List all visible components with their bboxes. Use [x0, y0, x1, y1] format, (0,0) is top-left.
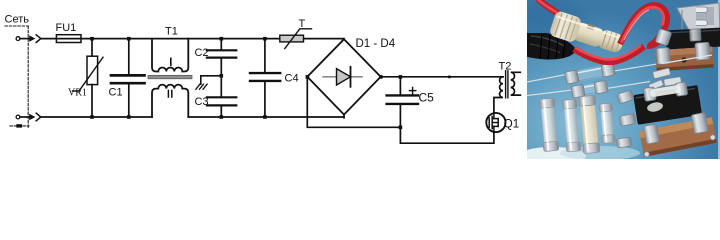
node: C1 top junction [127, 37, 131, 41]
photo background [527, 0, 720, 159]
wire: C1 top lead [128, 39, 130, 75]
wire: C1 bottom lead [128, 84, 130, 117]
input terminal L (top) [16, 37, 20, 41]
standing fuse s3 (ceramic) [579, 95, 600, 153]
thermistor T diagonal stroke [285, 29, 312, 49]
varistor VR1 diagonal stroke [73, 57, 104, 91]
loose metal caps [617, 90, 636, 148]
shadow under black boot [490, 0, 600, 60]
wire: C5 top lead [399, 77, 401, 94]
standing fuse s2 [562, 99, 580, 152]
wire: bridge minus drop and under-bridge return [307, 77, 400, 128]
node: C5 minus junction [399, 126, 403, 130]
capacitor C2 top plate [207, 49, 236, 51]
capacitor C3 bottom plate [207, 104, 236, 106]
node: C5 plus junction [399, 75, 403, 79]
bridge diode triangle [337, 69, 351, 85]
wire: DC plus line [381, 76, 503, 78]
wire: bridge bottom stub [343, 115, 345, 118]
transformer T2 core [505, 71, 507, 98]
svg-text:Q1: Q1 [504, 119, 519, 131]
light streak bottom-left [518, 147, 586, 165]
wire: bottom bus middle [188, 116, 344, 118]
red cable sag from boot to loop [574, 47, 644, 62]
thermistor T body [280, 35, 304, 42]
svg-text:C1: C1 [109, 87, 123, 99]
node: C1 bottom junction [127, 115, 131, 119]
arrow head (plug) bottom [29, 114, 35, 120]
arrow head (plug) top [29, 35, 35, 41]
transistor Q1 circle [486, 113, 505, 132]
label I (winding I numeral) [170, 58, 172, 65]
metal bracket top-right [677, 3, 720, 34]
chevron (socket) bottom [36, 113, 41, 121]
black square marker on dash-dot stub [16, 124, 22, 127]
node: VR1 top junction [90, 37, 94, 41]
wire: VR1 bottom lead [91, 85, 93, 117]
bridge rectifier D1-D4 diamond [307, 39, 380, 114]
wire: terminal to arrow [20, 38, 30, 40]
axial fuse A1 (transparent glass) [565, 63, 616, 84]
glare on black holder [646, 101, 664, 113]
capacitor C4 bottom plate [250, 80, 280, 82]
capacitor C2 bottom plate [207, 56, 236, 58]
dash-dot stub below bottom terminal [10, 125, 29, 127]
wire: VR1 top lead [91, 39, 93, 57]
black rubber boot [526, 33, 575, 59]
knurled cap of holder [596, 28, 626, 54]
svg-text:FU1: FU1 [56, 22, 77, 34]
transformer T2 primary winding [494, 77, 503, 113]
wire: C5 bottom lead [399, 105, 401, 127]
transformer T1 core bar [148, 75, 192, 79]
spade terminals cluster [648, 68, 681, 90]
node: bridge left vertex junction [306, 75, 310, 79]
dashed mains boundary vertical [27, 26, 29, 128]
red cable tail to clip [647, 42, 659, 47]
svg-text:C5: C5 [419, 91, 435, 105]
wire: C4 bottom lead [264, 82, 266, 117]
capacitor C1 bottom plate [111, 82, 145, 85]
svg-text:VR1: VR1 [68, 88, 87, 99]
svg-text:C2: C2 [195, 47, 209, 59]
lead wire over brown block [662, 55, 712, 64]
node: VR1 bottom junction [90, 115, 94, 119]
capacitor C1 top plate [111, 74, 145, 77]
brown pcb fuse holder bottom-right [638, 111, 717, 157]
light strip right edge [718, 0, 720, 159]
input terminal N (bottom) [16, 115, 20, 119]
bridge diode cathode bar [350, 67, 352, 87]
svg-text:D1 - D4: D1 - D4 [356, 38, 396, 50]
axial fuse lead wires [527, 57, 703, 96]
svg-text:T: T [299, 18, 306, 30]
wire: top bus [41, 38, 344, 40]
wire: bottom terminal to arrow [20, 116, 30, 118]
black fuse block top-right [666, 28, 720, 50]
node: bridge right vertex junction [379, 75, 383, 79]
chevron (socket) top [36, 35, 41, 43]
wire: C2 top lead [220, 39, 222, 50]
node: C4 bottom junction [263, 115, 267, 119]
capacitor C5 bottom plate [387, 103, 418, 105]
capacitor C5 top plate [387, 94, 418, 96]
svg-text:T2: T2 [499, 61, 512, 73]
wire: ground branch [201, 76, 222, 84]
wire: bottom bus left [41, 116, 152, 118]
bridge inner axis (gray) [323, 76, 362, 78]
red cable into holder cap [537, 0, 568, 21]
transformer T1 winding I [152, 39, 188, 72]
dashed mains boundary underline [5, 25, 29, 27]
C5 plus sign [409, 87, 415, 93]
axial fuse A2 (transparent glass) [571, 80, 609, 98]
transformer T1 winding II [152, 85, 188, 117]
black fuse holder block [632, 80, 702, 125]
standing fuse s4 [599, 103, 615, 143]
node: ground junction [220, 74, 224, 78]
node: C2 top junction [220, 37, 224, 41]
node: C3 bottom junction [220, 115, 224, 119]
wire: C4 top lead [264, 39, 266, 72]
standing fuse s1 [539, 98, 559, 152]
label II (winding II numeral) [167, 90, 169, 97]
spade terminal on red cable [655, 28, 672, 45]
svg-text:T1: T1 [165, 26, 178, 38]
cream fuse holder [549, 10, 606, 50]
wire: return rail to Q1 source [400, 127, 494, 143]
brown fuse block top-right [655, 42, 714, 71]
capacitor C4 top plate [250, 72, 280, 74]
transistor Q1 mosfet symbol [489, 113, 498, 132]
wire: C3 bottom lead [220, 106, 222, 117]
capacitor C3 top plate [207, 96, 236, 98]
svg-text:C4: C4 [285, 73, 299, 85]
fuse FU1 body [56, 35, 81, 43]
varistor VR1 body [87, 56, 98, 84]
red cable loop right of holder [620, 5, 667, 46]
ground (chassis) [196, 84, 207, 89]
svg-text:Сеть: Сеть [5, 14, 30, 26]
transformer T2 secondary winding [511, 72, 521, 95]
node: C4 top junction [263, 37, 267, 41]
node: small dot on DC plus line [448, 76, 451, 79]
svg-text:C3: C3 [195, 96, 209, 108]
wire: C2-C3 middle lead [220, 59, 222, 97]
